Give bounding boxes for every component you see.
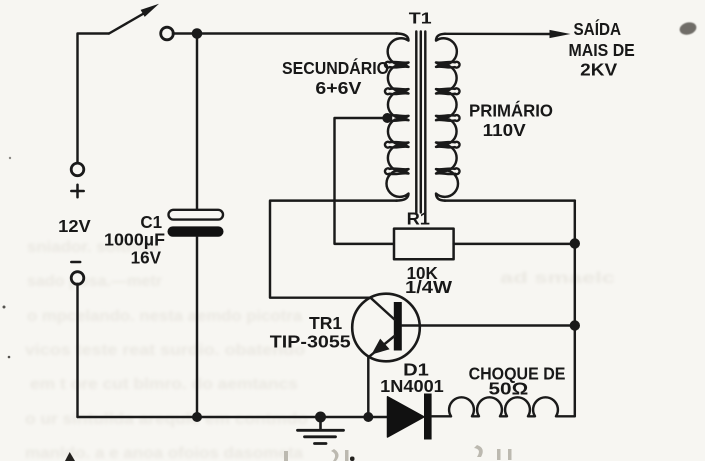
wire: TR1 base to right column	[402, 324, 575, 326]
svg-text:SAÍDA: SAÍDA	[574, 18, 622, 39]
wire: junction down to C1	[196, 34, 198, 210]
wire: right column	[574, 201, 576, 417]
svg-text:PRIMÁRIO: PRIMÁRIO	[469, 100, 553, 121]
svg-text:1/4W: 1/4W	[405, 277, 453, 297]
output arrow: SAIDA	[445, 30, 571, 38]
capacitor C1 top plate	[169, 210, 224, 220]
resistor R1	[394, 229, 454, 260]
inductor: choke 50 ohms	[449, 397, 575, 416]
wire: R1 to right column	[454, 243, 575, 245]
label SAIDA MAIS DE 2KV	[569, 18, 635, 80]
svg-text:em t ore cut blmro. do aemtanc: em t ore cut blmro. do aemtancs	[30, 376, 298, 393]
battery negative terminal	[71, 272, 84, 285]
wire: battery positive up to switch pivot	[78, 34, 110, 164]
battery positive terminal	[71, 163, 84, 176]
wire: C1 to bottom rail	[196, 237, 198, 417]
transformer T1 primary winding	[436, 34, 460, 201]
svg-text:TR1: TR1	[309, 313, 342, 333]
svg-text:1N4001: 1N4001	[380, 376, 444, 396]
node: emitter junction on bottom rail	[363, 412, 373, 422]
wire: secondary bottom to TR1 collector	[270, 201, 397, 298]
node: top rail junction	[192, 28, 203, 39]
wire: primary bottom to right column	[445, 199, 575, 201]
switch S1 blade	[109, 4, 159, 34]
node: secondary center tap	[382, 113, 392, 123]
svg-text:R1: R1	[407, 208, 431, 228]
battery negative sign	[71, 261, 80, 264]
svg-text:ad smaelc: ad smaelc	[500, 270, 616, 287]
svg-text:sado posa.—metr: sado posa.—metr	[27, 273, 162, 290]
svg-text:vicos teste reat surdio. obate: vicos teste reat surdio. obatendo	[25, 342, 305, 359]
wire: top rail to T1 secondary	[173, 32, 397, 34]
svg-text:110V: 110V	[483, 120, 526, 140]
node: C1 bottom junction	[192, 412, 202, 422]
transformer T1 core	[416, 32, 425, 213]
ground	[298, 412, 344, 444]
svg-text:16V: 16V	[131, 247, 162, 267]
svg-text:MAIS DE: MAIS DE	[569, 40, 635, 60]
svg-text:12V: 12V	[58, 216, 91, 236]
node: R1 junction on right column	[570, 238, 580, 248]
svg-text:TIP-3055: TIP-3055	[270, 332, 351, 352]
node: base junction on right column	[570, 320, 580, 330]
capacitor C1 bottom plate	[168, 226, 224, 236]
wire: TR1 emitter to bottom rail	[367, 357, 369, 417]
svg-text:o mpcelando. nesta aemdo picot: o mpcelando. nesta aemdo picotra	[27, 308, 302, 325]
svg-text:6+6V: 6+6V	[315, 78, 361, 98]
battery plus sign	[71, 185, 83, 197]
svg-text:T1: T1	[409, 11, 432, 28]
svg-text:SECUNDÁRIO: SECUNDÁRIO	[282, 57, 389, 78]
transistor TR1	[352, 294, 420, 362]
svg-text:2KV: 2KV	[580, 60, 617, 80]
switch S1 open terminal	[161, 27, 174, 40]
wire: battery negative down to bottom rail	[76, 284, 78, 417]
transformer T1 secondary winding	[385, 34, 409, 201]
svg-text:o ur sintullda arequle em cont: o ur sintullda arequle em contmdo	[25, 411, 308, 428]
wire: center tap to R1	[335, 118, 395, 244]
wire: D1 cathode to choke	[432, 415, 451, 417]
diode D1	[388, 394, 432, 440]
wire: bottom rail	[78, 416, 388, 418]
svg-text:50Ω: 50Ω	[489, 378, 529, 398]
svg-text:1000µF: 1000µF	[104, 229, 165, 249]
